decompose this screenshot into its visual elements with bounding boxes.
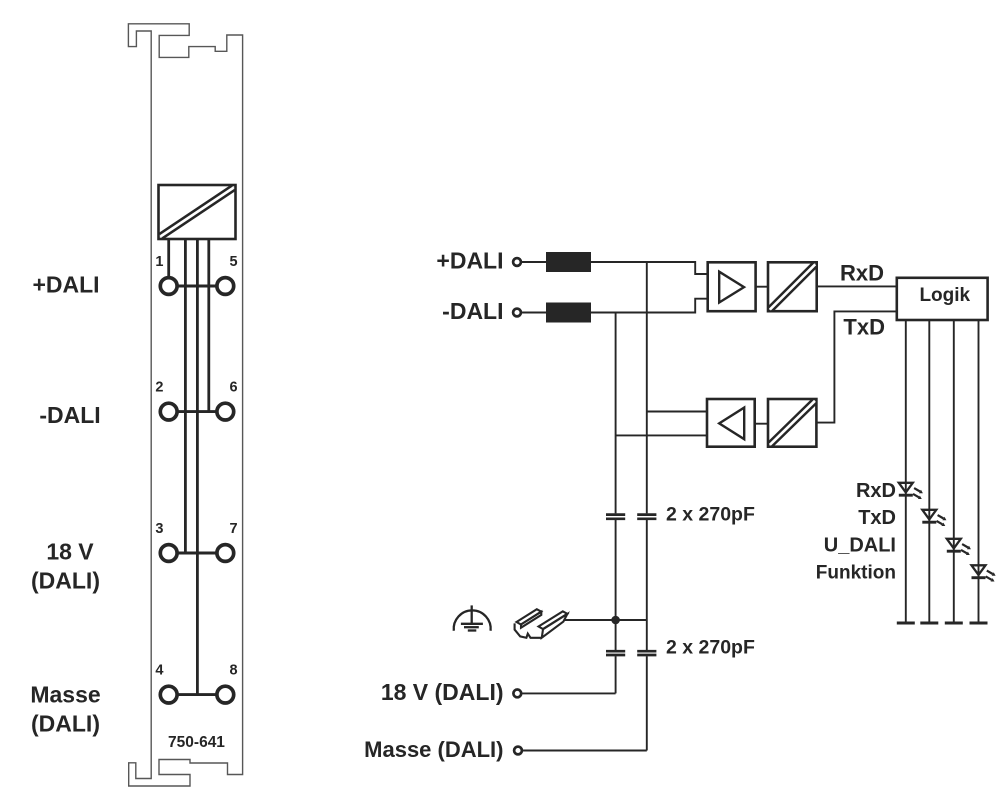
svg-text:Masse: Masse — [30, 682, 100, 708]
filter choke L1 (+DALI) — [546, 252, 591, 272]
wire 18 V (DALI) — [522, 692, 616, 694]
LED supply line 1 — [905, 320, 907, 622]
svg-text:1: 1 — [155, 254, 163, 270]
svg-text:8: 8 — [230, 663, 238, 679]
svg-text:750-641: 750-641 — [168, 734, 225, 751]
op-amp buffer U4 (transmit) — [707, 399, 755, 447]
wire bus line 3 (to row 4) — [196, 239, 199, 695]
wire bus line 4 (to row 2) — [207, 239, 210, 412]
wire row 3 connector — [169, 552, 226, 555]
wire +DALI net to transmitter — [647, 411, 707, 413]
terminal pin 1 — [160, 278, 177, 295]
svg-text:TxD: TxD — [843, 314, 885, 339]
svg-text:TxD: TxD — [858, 507, 896, 529]
LED D3 U_DALI — [947, 539, 971, 555]
terminal pin 3 — [160, 545, 177, 562]
capacitor pair C1 plates — [606, 513, 625, 516]
terminal 18 V (DALI) — [513, 690, 521, 698]
svg-text:2: 2 — [155, 380, 163, 396]
svg-text:+DALI: +DALI — [32, 272, 99, 298]
terminal pin 2 — [160, 403, 177, 420]
terminal +DALI — [513, 258, 521, 266]
terminal pin 5 — [217, 278, 234, 295]
LED terminator bar 2 — [920, 622, 938, 625]
wire RxD — [817, 285, 897, 287]
wire row 1 connector — [169, 285, 226, 288]
capacitor pair C4 plates — [637, 650, 656, 653]
svg-text:(DALI): (DALI) — [31, 568, 100, 594]
node net +DALI vertical — [646, 262, 648, 513]
ground symbol — [454, 605, 491, 630]
LED supply line 4 — [978, 320, 980, 622]
svg-text:Funktion: Funktion — [816, 563, 896, 584]
terminal pin 7 — [217, 545, 234, 562]
LED terminator bar 1 — [897, 622, 915, 625]
svg-text:(DALI): (DALI) — [31, 711, 100, 737]
svg-text:2 x 270pF: 2 x 270pF — [666, 504, 755, 526]
svg-text:5: 5 — [230, 254, 238, 270]
svg-text:Logik: Logik — [919, 285, 970, 306]
junction dot ground net — [611, 616, 620, 625]
module 750-641 outline — [128, 24, 242, 786]
node net -DALI vertical — [615, 313, 617, 514]
svg-text:RxD: RxD — [856, 480, 896, 502]
isolator U5 (transmit) — [768, 399, 816, 447]
terminal pin 8 — [217, 686, 234, 703]
wire -DALI to filter — [521, 312, 546, 314]
LED supply line 3 — [953, 320, 955, 622]
LED terminator bar 3 — [945, 622, 963, 625]
svg-text:Masse (DALI): Masse (DALI) — [364, 737, 503, 762]
svg-text:U_DALI: U_DALI — [824, 535, 896, 557]
LED D2 TxD — [922, 510, 946, 526]
wire -DALI filter to buffer bracket — [591, 299, 708, 313]
power supply U1 box — [159, 185, 236, 239]
svg-text:3: 3 — [155, 521, 163, 537]
wire buffer to isolator (receive) — [756, 286, 768, 288]
wire TxD — [816, 311, 896, 422]
terminal Masse (DALI) — [514, 747, 522, 755]
LED D1 RxD — [899, 483, 923, 499]
svg-text:18 V: 18 V — [46, 539, 94, 565]
wire bus line 2 (to row 3) — [184, 239, 187, 553]
svg-text:4: 4 — [155, 663, 163, 679]
terminal pin 4 — [160, 686, 177, 703]
terminal -DALI — [513, 309, 521, 317]
svg-text:RxD: RxD — [840, 260, 884, 285]
svg-text:-DALI: -DALI — [39, 402, 100, 428]
svg-text:18 V (DALI): 18 V (DALI) — [381, 679, 504, 705]
svg-text:7: 7 — [230, 521, 238, 537]
svg-text:6: 6 — [230, 380, 238, 396]
power supply U1 diagonal — [161, 188, 234, 237]
wire bus line 1 (to pin 1) — [167, 239, 170, 278]
wire rail to ground net — [565, 619, 647, 621]
wire transmit buffer to isolator — [755, 423, 768, 425]
DIN rail symbol — [515, 609, 568, 638]
wire row 2 connector — [169, 410, 226, 413]
wire +DALI filter to buffer bracket — [591, 262, 708, 274]
op-amp buffer U2 (receive) — [708, 262, 756, 311]
LED supply line 2 — [928, 320, 930, 622]
LED terminator bar 4 — [970, 622, 988, 625]
capacitor pair C3 plates — [606, 650, 625, 653]
svg-text:-DALI: -DALI — [442, 298, 503, 324]
terminal pin 6 — [217, 403, 234, 420]
filter choke L2 (-DALI) — [546, 303, 591, 323]
LED D4 Funktion — [972, 565, 996, 581]
logic block Logik — [897, 278, 988, 320]
wire Masse (DALI) — [522, 750, 647, 752]
svg-text:+DALI: +DALI — [436, 248, 503, 274]
capacitor pair C2 plates — [637, 513, 656, 516]
wire -DALI net to transmitter — [616, 434, 707, 436]
svg-text:2 x 270pF: 2 x 270pF — [666, 637, 755, 659]
wire +DALI to filter — [521, 261, 546, 263]
isolator U3 (receive) — [768, 262, 817, 311]
wire row 4 connector — [169, 693, 226, 696]
